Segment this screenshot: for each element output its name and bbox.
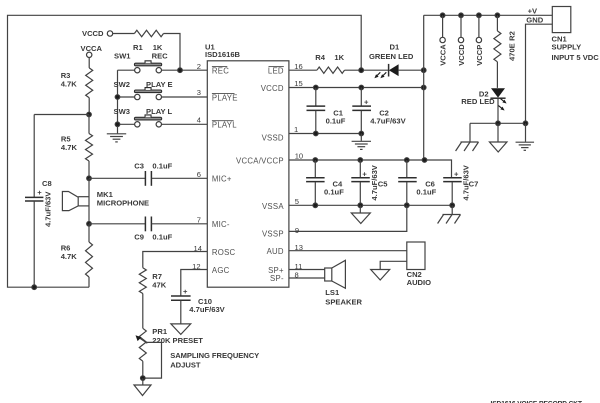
svg-text:VCCD: VCCD bbox=[457, 44, 466, 66]
node SW1/R1 junction bbox=[178, 68, 183, 73]
svg-text:REC: REC bbox=[212, 67, 229, 76]
svg-text:4.7K: 4.7K bbox=[61, 79, 78, 88]
terminal VCCA power bbox=[440, 13, 445, 18]
ground triangle below PR1 bbox=[142, 378, 144, 385]
svg-text:4.7uF/63V: 4.7uF/63V bbox=[370, 164, 379, 200]
svg-text:PLAY L: PLAY L bbox=[146, 107, 173, 116]
preset PR1 220K bbox=[139, 328, 146, 361]
capacitor C10 4.7uF/63V bbox=[171, 295, 191, 297]
svg-text:+: + bbox=[454, 170, 459, 179]
svg-text:SW3: SW3 bbox=[114, 107, 130, 116]
PR1 wiper arrow bbox=[139, 338, 148, 344]
svg-text:12: 12 bbox=[192, 262, 200, 271]
svg-text:MICROPHONE: MICROPHONE bbox=[97, 199, 149, 208]
terminal VCCA bbox=[87, 52, 92, 57]
svg-text:16: 16 bbox=[294, 62, 302, 71]
resistor R4 1K pin16 bbox=[289, 69, 317, 71]
svg-text:ISD1616B: ISD1616B bbox=[205, 50, 241, 59]
svg-text:0.1uF: 0.1uF bbox=[326, 117, 346, 126]
terminal VCCD power bbox=[459, 13, 464, 18]
microphone MK1 bbox=[88, 178, 90, 224]
ground chassis left of D2 bbox=[469, 123, 471, 142]
svg-text:AGC: AGC bbox=[212, 266, 230, 275]
wire VSSD pin1 rail bbox=[289, 133, 361, 135]
svg-text:R1: R1 bbox=[133, 43, 143, 52]
svg-text:D1: D1 bbox=[390, 42, 400, 51]
svg-text:0.1uF: 0.1uF bbox=[324, 187, 344, 196]
svg-text:AUDIO: AUDIO bbox=[407, 278, 432, 287]
op-amp U1 ISD1616B IC box bbox=[207, 61, 289, 287]
connector CN2 AUDIO bbox=[407, 242, 425, 270]
svg-text:5: 5 bbox=[295, 197, 299, 206]
switch SW1 REC bbox=[118, 69, 135, 71]
D2 emission arrows bbox=[498, 99, 506, 111]
D1 emission arrows bbox=[374, 72, 386, 78]
svg-text:C5: C5 bbox=[378, 180, 388, 189]
svg-text:14: 14 bbox=[194, 244, 202, 253]
ground earth below CN1 GND bbox=[525, 123, 527, 142]
resistor R7 47K bbox=[139, 268, 146, 294]
svg-text:4.7K: 4.7K bbox=[61, 252, 78, 261]
svg-text:MIC+: MIC+ bbox=[212, 175, 232, 184]
capacitor C9 0.1uF bbox=[89, 223, 145, 225]
wire PR1 wiper loop bbox=[143, 342, 162, 378]
wire +V rail bbox=[424, 14, 553, 16]
svg-text:R4: R4 bbox=[315, 53, 325, 62]
svg-text:4.7uF/63V: 4.7uF/63V bbox=[461, 164, 470, 200]
svg-text:LED: LED bbox=[268, 67, 284, 76]
svg-text:VCCP: VCCP bbox=[475, 45, 484, 66]
wire to C8 branch bbox=[34, 114, 89, 116]
svg-text:C3: C3 bbox=[134, 162, 144, 171]
resistor R6 4.7K bbox=[88, 224, 90, 242]
svg-text:9: 9 bbox=[295, 226, 299, 235]
terminal VCCD bbox=[107, 31, 112, 36]
svg-text:C9: C9 bbox=[134, 232, 144, 241]
wire +V vertical bbox=[423, 15, 426, 160]
wire VCCD pin15 rail bbox=[289, 87, 424, 89]
svg-text:4.7uF/63V: 4.7uF/63V bbox=[189, 305, 225, 314]
svg-text:10: 10 bbox=[295, 152, 303, 161]
capacitor C7 4.7uF/63V bbox=[443, 177, 462, 179]
wire AGC pin12 bbox=[181, 270, 208, 296]
svg-text:+: + bbox=[183, 287, 188, 296]
wire VCCA/VCCP pin10 rail bbox=[289, 160, 452, 177]
svg-text:47K: 47K bbox=[152, 280, 166, 289]
diode D1 GREEN LED bbox=[388, 64, 390, 77]
svg-text:4: 4 bbox=[197, 115, 201, 124]
svg-text:7: 7 bbox=[197, 216, 201, 225]
wire loop from D1 junction around left side to R6/C8 bottom bbox=[8, 15, 362, 287]
wire SW left bus bbox=[117, 70, 119, 133]
svg-text:+: + bbox=[364, 98, 369, 107]
capacitor C6 0.1uF bbox=[406, 160, 408, 177]
resistor R1 1K bbox=[113, 33, 135, 35]
svg-text:LS1: LS1 bbox=[325, 288, 340, 297]
ground triangle below C10 bbox=[171, 324, 191, 335]
svg-text:R2: R2 bbox=[508, 31, 517, 41]
svg-text:VCCA/VCCP: VCCA/VCCP bbox=[236, 157, 284, 166]
svg-text:AUD: AUD bbox=[267, 247, 284, 256]
speaker LS1 bbox=[289, 269, 325, 271]
node mic top junction bbox=[87, 176, 92, 181]
svg-text:MIC-: MIC- bbox=[212, 220, 230, 229]
svg-text:VSSA: VSSA bbox=[262, 202, 284, 211]
svg-text:VSSD: VSSD bbox=[262, 133, 284, 142]
svg-text:SPEAKER: SPEAKER bbox=[325, 298, 362, 307]
svg-text:1: 1 bbox=[294, 125, 298, 134]
capacitor C2 4.7uF/63V bbox=[360, 88, 362, 106]
svg-text:1K: 1K bbox=[334, 53, 344, 62]
wire VSSP pin9 bbox=[289, 205, 407, 231]
svg-text:C8: C8 bbox=[42, 179, 52, 188]
capacitor C5 4.7uF/63V bbox=[359, 160, 361, 177]
svg-text:SUPPLY: SUPPLY bbox=[552, 43, 582, 52]
wire AUD pin13 bbox=[289, 250, 407, 252]
svg-text:4.7K: 4.7K bbox=[61, 143, 78, 152]
ground earth below switches bbox=[107, 134, 126, 142]
svg-text:+V: +V bbox=[528, 7, 538, 16]
node PR1 bottom junction bbox=[141, 376, 146, 381]
svg-text:ADJUST: ADJUST bbox=[170, 361, 201, 370]
svg-text:VCCD: VCCD bbox=[82, 29, 104, 38]
svg-text:REC: REC bbox=[152, 51, 169, 60]
ground chassis below C7 bbox=[451, 205, 453, 214]
svg-text:VSSP: VSSP bbox=[262, 229, 284, 238]
svg-text:0.1uF: 0.1uF bbox=[152, 232, 172, 241]
terminal VCCP power bbox=[477, 13, 482, 18]
switch SW2 PLAY E bbox=[118, 96, 135, 98]
svg-text:0.1uF: 0.1uF bbox=[152, 162, 172, 171]
svg-text:GREEN LED: GREEN LED bbox=[369, 52, 414, 61]
node R4/D1 junction bbox=[359, 68, 364, 73]
ground triangle at CN2 bbox=[380, 261, 407, 269]
svg-text:13: 13 bbox=[295, 243, 303, 252]
svg-text:RED LED: RED LED bbox=[461, 97, 495, 106]
svg-text:SAMPLING FREQUENCY: SAMPLING FREQUENCY bbox=[170, 351, 259, 360]
connector CN1 SUPPLY bbox=[552, 7, 571, 33]
resistor R5 4.7K bbox=[88, 115, 90, 134]
svg-text:VCCD: VCCD bbox=[261, 84, 284, 93]
svg-text:4.7uF/63V: 4.7uF/63V bbox=[44, 191, 53, 227]
capacitor C8 4.7uF/63V bbox=[33, 115, 35, 198]
node C8 bottom junction bbox=[32, 285, 37, 290]
svg-text:SW2: SW2 bbox=[114, 80, 130, 89]
svg-text:470E: 470E bbox=[508, 43, 517, 61]
wire VSSA pin5 rail bbox=[289, 204, 452, 206]
svg-text:SW1: SW1 bbox=[114, 51, 131, 60]
wire ground rail right bbox=[470, 122, 526, 124]
svg-text:4.7uF/63V: 4.7uF/63V bbox=[370, 117, 406, 126]
capacitor C3 0.1uF bbox=[89, 177, 145, 179]
ground triangle below D2 bbox=[497, 123, 499, 142]
svg-text:GND: GND bbox=[526, 15, 543, 24]
switch SW3 PLAY L bbox=[118, 123, 135, 125]
wire ROSC pin14 bbox=[143, 252, 208, 268]
svg-text:0.1uF: 0.1uF bbox=[416, 187, 436, 196]
wire GND from CN1 bbox=[526, 24, 553, 123]
svg-text:2: 2 bbox=[197, 62, 201, 71]
ground triangle below C5 bbox=[359, 205, 361, 213]
node D1 cathode junction bbox=[421, 68, 426, 73]
svg-text:8: 8 bbox=[295, 271, 299, 280]
capacitor C1 0.1uF bbox=[315, 88, 317, 106]
svg-text:+: + bbox=[37, 188, 42, 197]
svg-text:VCCA: VCCA bbox=[439, 44, 448, 66]
node R3/R5/C8-branch junction bbox=[87, 112, 92, 117]
capacitor C4 0.1uF bbox=[314, 160, 316, 177]
node mic bottom junction bbox=[87, 222, 92, 227]
resistor R3 4.7K bbox=[88, 58, 90, 68]
svg-text:PR1: PR1 bbox=[152, 327, 168, 336]
svg-text:SP-: SP- bbox=[270, 274, 284, 283]
svg-text:INPUT 5 VDC: INPUT 5 VDC bbox=[552, 53, 600, 62]
svg-text:VCCA: VCCA bbox=[81, 44, 103, 53]
svg-text:+: + bbox=[362, 170, 367, 179]
svg-text:PLAYL: PLAYL bbox=[212, 121, 237, 130]
ground earth at VSSD bbox=[360, 134, 362, 141]
svg-text:220K PRESET: 220K PRESET bbox=[152, 336, 203, 345]
svg-text:15: 15 bbox=[294, 79, 302, 88]
svg-text:6: 6 bbox=[197, 170, 201, 179]
diode D2 RED LED bbox=[491, 88, 505, 97]
resistor R2 470E bbox=[495, 13, 500, 18]
svg-text:ROSC: ROSC bbox=[212, 248, 236, 257]
svg-text:PLAY E: PLAY E bbox=[146, 80, 173, 89]
svg-text:3: 3 bbox=[197, 88, 201, 97]
svg-text:PLAYE: PLAYE bbox=[212, 93, 238, 102]
